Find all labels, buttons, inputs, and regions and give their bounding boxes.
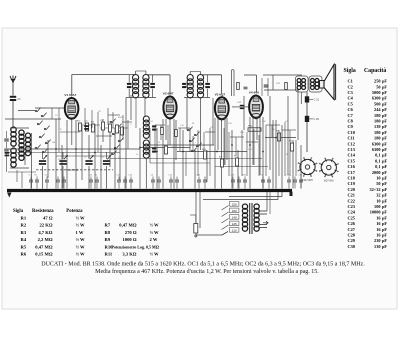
svg-text:pF: pF [382, 215, 387, 220]
svg-text:C12: C12 [348, 141, 355, 146]
svg-text:Sigla: Sigla [13, 209, 24, 214]
svg-text:C3: C3 [348, 90, 353, 95]
svg-text:C9: C9 [348, 124, 353, 129]
svg-text:µF: µF [382, 176, 387, 181]
svg-text:3,3 KΩ: 3,3 KΩ [122, 252, 136, 257]
svg-text:pF: pF [382, 124, 387, 129]
svg-text:R4: R4 [21, 237, 27, 242]
svg-text:R3: R3 [21, 230, 27, 235]
svg-text:pF: pF [382, 130, 387, 135]
svg-text:2000: 2000 [372, 170, 381, 175]
svg-text:139: 139 [374, 124, 380, 129]
svg-text:pF: pF [382, 101, 387, 106]
svg-text:pF: pF [382, 233, 387, 238]
svg-text:22 KΩ: 22 KΩ [40, 223, 53, 228]
svg-text:½ W: ½ W [76, 237, 86, 242]
svg-text:180: 180 [374, 119, 380, 124]
svg-text:pF: pF [382, 107, 387, 112]
svg-text:C24: C24 [348, 210, 356, 215]
svg-text:½ W: ½ W [76, 252, 86, 257]
svg-text:V1 6TA7: V1 6TA7 [64, 93, 76, 97]
svg-text:C7: C7 [348, 113, 354, 118]
svg-text:220: 220 [232, 202, 237, 206]
svg-text:C16: C16 [348, 164, 356, 169]
svg-text:230: 230 [374, 238, 380, 243]
svg-text:½ W: ½ W [76, 216, 86, 221]
svg-text:R11: R11 [105, 252, 113, 257]
svg-text:pF: pF [382, 221, 387, 226]
svg-text:R5: R5 [21, 244, 27, 249]
svg-text:140: 140 [232, 215, 237, 219]
svg-text:47 Ω: 47 Ω [43, 216, 53, 221]
svg-text:32: 32 [376, 193, 380, 198]
svg-text:6TA7-6M7: 6TA7-6M7 [302, 179, 314, 182]
svg-text:pF: pF [382, 136, 387, 141]
svg-text:pF: pF [382, 238, 387, 243]
svg-text:µF: µF [382, 198, 387, 203]
svg-text:250: 250 [374, 79, 380, 84]
svg-text:pF: pF [382, 113, 387, 118]
svg-text:R6: R6 [21, 252, 27, 257]
svg-text:OM: OM [52, 142, 56, 144]
svg-text:C5: C5 [348, 101, 353, 106]
svg-text:C18: C18 [348, 176, 355, 181]
svg-text:130: 130 [374, 244, 380, 249]
svg-text:C19: C19 [348, 181, 355, 186]
svg-text:R2: R2 [21, 223, 27, 228]
svg-text:µF: µF [382, 153, 387, 158]
svg-text:0,15 MΩ: 0,15 MΩ [35, 252, 53, 257]
svg-text:C13: C13 [348, 147, 355, 152]
svg-text:µF: µF [382, 158, 387, 163]
svg-text:µF: µF [382, 164, 387, 169]
svg-text:10: 10 [376, 198, 380, 203]
svg-text:0,47 MΩ: 0,47 MΩ [35, 244, 53, 249]
svg-text:C15: C15 [348, 158, 355, 163]
svg-text:180: 180 [374, 136, 380, 141]
svg-text:0,1: 0,1 [375, 164, 380, 169]
svg-text:DUCATI - Mod. BR 1538. Onde me: DUCATI - Mod. BR 1538. Onde medie da 515… [41, 261, 365, 267]
svg-text:½ W: ½ W [150, 252, 160, 257]
svg-text:6300: 6300 [372, 96, 381, 101]
svg-text:V3 6Q7: V3 6Q7 [215, 92, 226, 96]
svg-text:½ W: ½ W [150, 223, 160, 228]
svg-text:C14: C14 [348, 153, 356, 158]
svg-text:0,1: 0,1 [375, 153, 380, 158]
svg-text:C1: C1 [348, 79, 353, 84]
svg-text:6300: 6300 [372, 141, 381, 146]
svg-text:32+32: 32+32 [369, 187, 380, 192]
svg-text:1000 Ω: 1000 Ω [122, 237, 136, 242]
svg-text:6Q7-6V6: 6Q7-6V6 [324, 180, 334, 183]
svg-text:C22: C22 [348, 198, 355, 203]
svg-text:pF: pF [382, 181, 387, 186]
svg-text:C28: C28 [348, 233, 355, 238]
svg-text:pF: pF [382, 84, 387, 89]
svg-text:½ W: ½ W [76, 223, 86, 228]
svg-text:10: 10 [376, 176, 380, 181]
svg-text:100: 100 [374, 204, 380, 209]
svg-text:C 20: C 20 [314, 117, 320, 121]
svg-text:pF: pF [382, 96, 387, 101]
svg-text:C26: C26 [348, 221, 356, 226]
svg-text:Resistenza: Resistenza [32, 209, 54, 214]
svg-text:R8: R8 [105, 230, 111, 235]
svg-text:pF: pF [382, 227, 387, 232]
svg-text:Capacità: Capacità [364, 68, 386, 74]
svg-text:½ W: ½ W [76, 244, 86, 249]
svg-text:C20: C20 [348, 187, 355, 192]
svg-text:R 11: R 11 [248, 126, 253, 128]
svg-text:V2 6M7: V2 6M7 [163, 92, 174, 96]
svg-text:Potenza: Potenza [66, 209, 83, 214]
svg-text:5000: 5000 [372, 90, 381, 95]
svg-text:C6C7C8C9: C6C7C8C9 [67, 170, 79, 172]
svg-text:270 Ω: 270 Ω [125, 230, 137, 235]
svg-text:C8: C8 [348, 119, 353, 124]
svg-text:pF: pF [382, 79, 387, 84]
svg-text:pF: pF [382, 141, 387, 146]
svg-text:Media frequenza a 467 KHz. Pot: Media frequenza a 467 KHz. Potenza d'usc… [95, 268, 319, 275]
svg-text:pF: pF [382, 204, 387, 209]
svg-text:160: 160 [232, 209, 237, 213]
svg-text:pF: pF [382, 90, 387, 95]
svg-text:µF: µF [382, 193, 387, 198]
svg-text:2 W: 2 W [150, 237, 158, 242]
svg-text:pF: pF [382, 119, 387, 124]
svg-text:µF: µF [382, 187, 387, 192]
svg-text:2,2 MΩ: 2,2 MΩ [38, 237, 53, 242]
svg-text:50: 50 [376, 84, 380, 89]
svg-text:500: 500 [374, 101, 380, 106]
svg-text:C2: C2 [348, 84, 353, 89]
svg-text:C25: C25 [348, 215, 355, 220]
svg-text:125: 125 [232, 222, 237, 226]
svg-text:110: 110 [232, 228, 237, 232]
svg-text:V4 6V6: V4 6V6 [249, 91, 259, 95]
svg-text:pF: pF [382, 170, 387, 175]
svg-text:180: 180 [374, 113, 380, 118]
svg-text:Sigla: Sigla [344, 68, 356, 74]
svg-text:pF: pF [382, 244, 387, 249]
svg-text:½ W: ½ W [150, 230, 160, 235]
svg-text:0,47 MΩ: 0,47 MΩ [119, 223, 137, 228]
svg-text:1 W: 1 W [76, 230, 84, 235]
svg-text:Potenziometro Log. 0,5 MΩ: Potenziometro Log. 0,5 MΩ [112, 244, 160, 249]
svg-text:C30: C30 [348, 244, 355, 249]
svg-text:C21: C21 [348, 193, 355, 198]
svg-text:C29: C29 [348, 238, 355, 243]
svg-text:C11: C11 [348, 136, 355, 141]
svg-text:6300: 6300 [372, 147, 381, 152]
svg-text:C17: C17 [348, 170, 356, 175]
svg-text:180: 180 [374, 130, 380, 135]
svg-text:R9: R9 [105, 237, 111, 242]
svg-text:C 21: C 21 [314, 98, 320, 102]
svg-text:C27: C27 [348, 227, 356, 232]
svg-text:C4: C4 [348, 96, 354, 101]
svg-text:R7: R7 [105, 223, 111, 228]
svg-text:10000: 10000 [370, 210, 381, 215]
svg-text:R1: R1 [21, 216, 27, 221]
svg-text:pF: pF [382, 147, 387, 152]
svg-text:0,1: 0,1 [375, 158, 380, 163]
svg-text:C6: C6 [348, 107, 354, 112]
svg-text:244: 244 [374, 107, 381, 112]
svg-text:C23: C23 [348, 204, 355, 209]
svg-text:C10: C10 [348, 130, 355, 135]
svg-text:50: 50 [376, 181, 380, 186]
svg-text:pF: pF [382, 210, 387, 215]
svg-text:4,7 KΩ: 4,7 KΩ [38, 230, 52, 235]
